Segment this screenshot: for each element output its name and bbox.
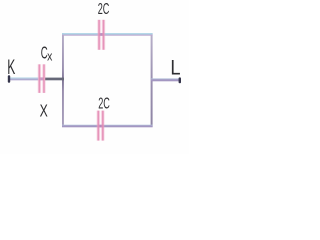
svg-text:x: x [47,50,52,64]
svg-text:2C: 2C [98,94,110,112]
svg-text:2C: 2C [98,0,110,18]
svg-text:L: L [170,56,180,80]
svg-text:K: K [7,54,15,79]
svg-text:X: X [40,102,48,122]
